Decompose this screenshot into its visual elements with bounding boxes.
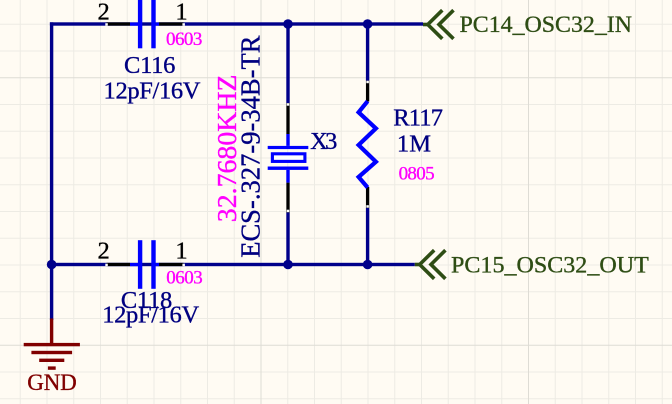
svg-text:0603: 0603: [166, 29, 202, 50]
svg-text:R117: R117: [393, 104, 443, 131]
svg-text:X3: X3: [310, 128, 337, 155]
svg-text:2: 2: [97, 238, 109, 265]
wire resistor bottom: [366, 208, 369, 266]
wire top horizontal net: [50, 22, 423, 25]
off-sheet connector PC15_OSC32_OUT: [415, 250, 446, 279]
svg-text:2: 2: [97, 0, 109, 26]
svg-text:0603: 0603: [166, 267, 202, 288]
junction (288,264.5): [283, 260, 293, 270]
svg-text:PC14_OSC32_IN: PC14_OSC32_IN: [460, 12, 633, 38]
resistor R117: [359, 81, 376, 209]
svg-text:0805: 0805: [399, 164, 435, 185]
svg-text:1: 1: [175, 0, 187, 26]
junction (288,24): [283, 19, 293, 29]
svg-text:1M: 1M: [397, 130, 431, 157]
junction (367.6,264.5): [363, 260, 373, 270]
svg-text:C116: C116: [124, 52, 175, 79]
capacitor C116: [105, 0, 185, 48]
wire crystal bottom: [286, 213, 289, 267]
capacitor C118: [105, 240, 185, 289]
junction (367.6,24): [363, 19, 373, 29]
svg-text:ECS-.327-9-34B-TR: ECS-.327-9-34B-TR: [235, 35, 266, 258]
wire resistor top: [366, 22, 369, 80]
svg-text:12pF/16V: 12pF/16V: [104, 78, 201, 105]
crystal X3: [268, 103, 309, 213]
wire bottom horizontal net: [50, 263, 415, 266]
junction (51.6,264.5): [47, 260, 57, 270]
wire crystal top: [286, 22, 289, 103]
svg-text:PC15_OSC32_OUT: PC15_OSC32_OUT: [451, 252, 649, 278]
ground symbol: [24, 319, 80, 370]
off-sheet connector PC14_OSC32_IN: [423, 10, 454, 39]
wire left vertical: [50, 22, 53, 320]
svg-text:12pF/16V: 12pF/16V: [102, 302, 199, 329]
svg-text:GND: GND: [27, 370, 76, 395]
svg-text:1: 1: [175, 238, 187, 265]
